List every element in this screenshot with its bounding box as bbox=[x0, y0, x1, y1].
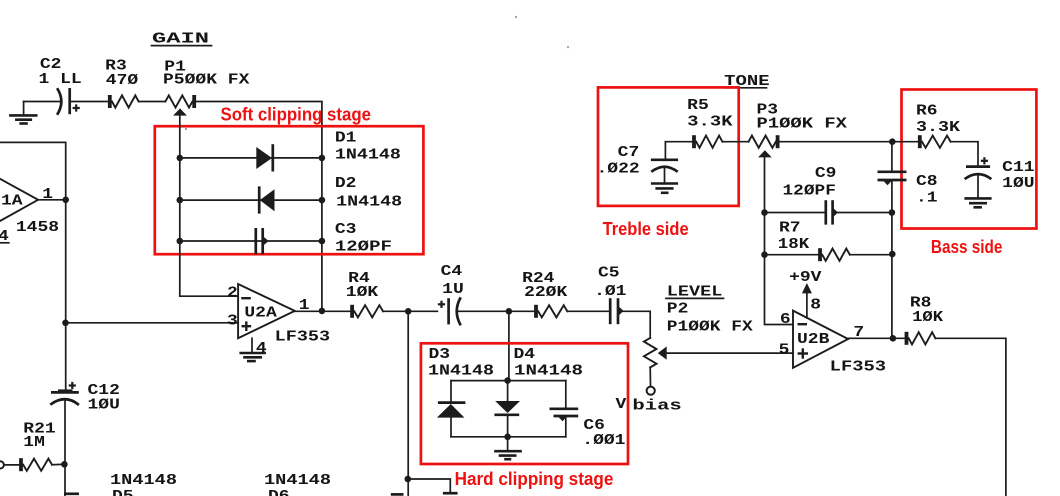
C4 plus sign bbox=[438, 301, 445, 308]
svg-text:1ØU: 1ØU bbox=[1002, 175, 1034, 192]
noise speck bbox=[185, 128, 187, 130]
capacitor C4 1U (electrolytic) bbox=[449, 297, 461, 325]
title TONE bbox=[724, 73, 769, 90]
junction bbox=[889, 209, 896, 216]
feedback wire from left edge bbox=[0, 142, 66, 199]
capacitor C3 120PF bbox=[256, 228, 269, 254]
svg-text:U2B: U2B bbox=[797, 331, 829, 348]
resistor R5 bbox=[694, 135, 722, 148]
wire bbox=[565, 416, 567, 437]
minus sign U2B bbox=[798, 323, 808, 325]
svg-text:1N4148: 1N4148 bbox=[336, 193, 402, 210]
wire down to hard-clip bbox=[508, 311, 510, 380]
svg-text:1A: 1A bbox=[1, 193, 23, 210]
svg-text:C3: C3 bbox=[335, 221, 357, 238]
svg-text:P5ØØK FX: P5ØØK FX bbox=[163, 72, 249, 89]
wire to soft-clip right rail bbox=[196, 102, 322, 312]
svg-text:V: V bbox=[616, 396, 627, 413]
junction bbox=[889, 138, 896, 145]
svg-text:R7: R7 bbox=[779, 220, 801, 237]
ground stem wire bbox=[507, 437, 509, 450]
svg-text:5: 5 bbox=[779, 341, 790, 358]
svg-text:Treble side: Treble side bbox=[603, 218, 689, 239]
plus sign U2B bbox=[798, 348, 808, 358]
wire bbox=[779, 141, 892, 143]
wire bbox=[450, 381, 452, 403]
capacitor C2 bbox=[57, 88, 70, 115]
svg-text:6: 6 bbox=[780, 311, 791, 328]
noise speck bbox=[567, 46, 569, 48]
junction bbox=[319, 155, 326, 162]
rail wire down bbox=[407, 311, 409, 496]
wire to C11 bbox=[951, 142, 978, 166]
wire bbox=[665, 141, 694, 143]
svg-text:4: 4 bbox=[256, 340, 267, 357]
ground C7 bbox=[651, 184, 678, 193]
svg-text:1U: 1U bbox=[442, 281, 464, 298]
svg-text:47Ø: 47Ø bbox=[106, 72, 138, 89]
svg-text:C4: C4 bbox=[441, 263, 463, 280]
wire bbox=[383, 310, 437, 312]
open terminal V bias bbox=[647, 387, 655, 395]
tone right rail wire upper bbox=[891, 142, 893, 171]
resistor R1? no: R3 bbox=[110, 95, 139, 108]
wire bbox=[722, 141, 748, 143]
junction bbox=[889, 251, 896, 258]
wire bbox=[24, 101, 60, 103]
resistor R7 bbox=[820, 248, 850, 261]
wire C9 row bbox=[765, 212, 825, 214]
junction bbox=[405, 476, 412, 483]
capacitor C9 120PF bbox=[826, 200, 838, 224]
resistor R24 bbox=[536, 305, 567, 318]
minus sign U2A bbox=[241, 297, 251, 299]
op-amp U2A LF353 bbox=[238, 284, 295, 338]
title GAIN bbox=[152, 30, 212, 47]
junction bbox=[761, 209, 768, 216]
svg-text:18K: 18K bbox=[778, 236, 809, 253]
resistor R4 bbox=[352, 305, 383, 318]
wire bbox=[567, 310, 609, 312]
diode D1 1N4148 bbox=[256, 144, 273, 171]
partial diode D5 mark bbox=[64, 492, 79, 495]
svg-text:C8: C8 bbox=[916, 173, 938, 190]
junction to U2A pin 3 bbox=[62, 320, 69, 327]
wire U1A output bbox=[38, 199, 66, 201]
diode D3 1N4148 (pointing up) bbox=[437, 403, 466, 418]
wire bbox=[977, 174, 979, 198]
left rail wire upper bbox=[65, 200, 67, 392]
svg-text:22ØK: 22ØK bbox=[524, 284, 567, 301]
junction node bbox=[405, 308, 412, 315]
svg-text:bias: bias bbox=[632, 398, 681, 415]
wire hard-clip bottom rail bbox=[451, 436, 566, 438]
red annotation box: treble side bbox=[598, 87, 739, 205]
noise speck bbox=[515, 16, 517, 18]
svg-text:.Ø22: .Ø22 bbox=[597, 161, 640, 178]
svg-text:C7: C7 bbox=[618, 144, 640, 161]
wire bbox=[834, 212, 892, 214]
wire P2 wiper to U2B pin 5 bbox=[667, 352, 793, 354]
wire bbox=[139, 101, 166, 103]
wire output to bottom edge bbox=[935, 338, 1006, 496]
partial component at bottom edge bbox=[443, 492, 458, 495]
svg-text:D4: D4 bbox=[514, 346, 536, 363]
svg-text:.ØØ1: .ØØ1 bbox=[582, 432, 625, 449]
tone right rail wire lower bbox=[891, 181, 893, 338]
svg-text:3: 3 bbox=[227, 312, 238, 329]
wire bbox=[52, 463, 64, 465]
wire D2 row bbox=[180, 199, 322, 201]
resistor R21 bbox=[21, 458, 52, 471]
op-amp U1A 1458 (clipped at left edge) bbox=[0, 165, 38, 236]
capacitor C11 10U (electrolytic) bbox=[965, 167, 992, 180]
junction bbox=[177, 238, 184, 245]
svg-text:1458: 1458 bbox=[16, 219, 59, 236]
resistor R8 bbox=[907, 332, 936, 345]
feedback junction bbox=[319, 308, 326, 315]
junction bbox=[319, 197, 326, 204]
ground stem wire bbox=[23, 102, 25, 115]
wire bbox=[664, 167, 666, 183]
svg-text:D1: D1 bbox=[335, 129, 357, 146]
svg-text:D6: D6 bbox=[268, 488, 290, 496]
junction bbox=[177, 155, 184, 162]
svg-text:12ØPF: 12ØPF bbox=[335, 238, 392, 255]
ground U2A bbox=[239, 353, 266, 361]
wire U2A pin 4 bbox=[251, 338, 253, 352]
wire D1 row bbox=[180, 157, 322, 159]
potentiometer P3 bbox=[749, 135, 778, 157]
junction bbox=[177, 197, 184, 204]
junction R21 bbox=[61, 461, 68, 468]
svg-text:.1: .1 bbox=[916, 189, 938, 206]
svg-text:3.3K: 3.3K bbox=[916, 119, 960, 136]
svg-text:12ØPF: 12ØPF bbox=[783, 182, 836, 199]
wire bbox=[565, 381, 567, 409]
svg-text:1M: 1M bbox=[23, 434, 45, 451]
svg-text:U2A: U2A bbox=[244, 305, 276, 322]
plus sign U2A bbox=[242, 321, 252, 331]
svg-text:Soft clipping stage: Soft clipping stage bbox=[221, 103, 372, 124]
wire hard-clip top rail bbox=[451, 380, 566, 382]
svg-text:+9V: +9V bbox=[789, 269, 821, 286]
svg-text:3.3K: 3.3K bbox=[687, 114, 732, 131]
ground hard-clip bbox=[494, 451, 522, 459]
+9V supply arrow bbox=[802, 283, 812, 318]
svg-text:1ØK: 1ØK bbox=[346, 284, 378, 301]
wire branch bbox=[408, 479, 451, 493]
wire bbox=[892, 141, 920, 143]
diode D4 1N4148 (pointing down) bbox=[494, 401, 520, 415]
ground C11 bbox=[964, 198, 991, 207]
wire bbox=[507, 415, 509, 437]
junction bbox=[761, 251, 768, 258]
svg-text:D5: D5 bbox=[112, 488, 134, 496]
wire bbox=[4, 464, 21, 466]
svg-text:LF353: LF353 bbox=[830, 358, 886, 375]
wire U2A output bbox=[295, 310, 352, 312]
op-amp U2B LF353 bbox=[793, 311, 848, 368]
wire to U2A pin 2 bbox=[180, 295, 238, 297]
svg-text:LF353: LF353 bbox=[275, 329, 330, 346]
wire to P2 bbox=[619, 311, 650, 338]
soft-clip left rail wire bbox=[179, 116, 181, 296]
title LEVEL bbox=[666, 283, 724, 300]
svg-text:P1ØØK FX: P1ØØK FX bbox=[667, 319, 753, 336]
junction node bbox=[506, 308, 513, 315]
node U1A output junction bbox=[62, 197, 69, 204]
svg-text:1ØK: 1ØK bbox=[912, 309, 943, 326]
svg-text:1N4148: 1N4148 bbox=[514, 363, 583, 380]
svg-text:Bass side: Bass side bbox=[931, 236, 1003, 257]
C11 plus sign bbox=[981, 157, 988, 164]
red annotation box: hard clipping stage bbox=[421, 343, 628, 464]
wire U2B output bbox=[848, 337, 906, 339]
svg-text:R5: R5 bbox=[687, 97, 709, 114]
junction bbox=[504, 377, 511, 384]
svg-text:1ØU: 1ØU bbox=[88, 396, 120, 413]
capacitor C12 10U (electrolytic) bbox=[50, 391, 79, 405]
ground bbox=[9, 115, 37, 123]
svg-text:R6: R6 bbox=[916, 103, 938, 120]
wire P3 wiper rail to U2B pin 6 bbox=[765, 157, 794, 324]
potentiometer P1 bbox=[165, 95, 194, 116]
potentiometer P2 (vertical) bbox=[644, 338, 667, 368]
pin 4 label with underline bbox=[0, 228, 9, 245]
wire bbox=[457, 310, 536, 312]
svg-text:C9: C9 bbox=[815, 165, 837, 182]
junction bbox=[504, 434, 511, 441]
resistor R6 bbox=[920, 135, 951, 148]
capacitor C6 .001 bbox=[550, 409, 579, 421]
diode D2 1N4148 bbox=[259, 186, 274, 213]
svg-text:1 LL: 1 LL bbox=[39, 71, 82, 88]
svg-text:D3: D3 bbox=[429, 346, 451, 363]
red annotation box: bass side bbox=[902, 90, 1037, 229]
svg-text:Hard clipping stage: Hard clipping stage bbox=[455, 468, 614, 489]
svg-text:.Ø1: .Ø1 bbox=[594, 283, 626, 300]
wire bbox=[850, 254, 892, 256]
svg-text:1N4148: 1N4148 bbox=[264, 472, 331, 489]
capacitor C7 .022 bbox=[651, 160, 678, 172]
left rail wire lower bbox=[64, 400, 66, 496]
svg-text:P1ØØK FX: P1ØØK FX bbox=[757, 116, 848, 133]
wire R7 row bbox=[765, 254, 821, 256]
red annotation box: soft clipping stage bbox=[155, 126, 424, 254]
wire bbox=[507, 381, 509, 401]
partial component at bottom edge bbox=[391, 493, 404, 496]
wire to U2A pin 3 bbox=[66, 322, 239, 324]
svg-text:1N4148: 1N4148 bbox=[428, 363, 494, 380]
svg-text:P2: P2 bbox=[667, 300, 689, 317]
wire bbox=[71, 101, 110, 103]
wire C3 row bbox=[180, 240, 322, 242]
C2 plus sign bbox=[73, 104, 80, 111]
wire C7 stem bbox=[664, 142, 666, 159]
junction bbox=[319, 238, 326, 245]
svg-text:8: 8 bbox=[810, 297, 821, 314]
svg-text:2: 2 bbox=[227, 285, 238, 302]
svg-text:C5: C5 bbox=[598, 264, 620, 281]
capacitor C5 .01 bbox=[610, 298, 623, 324]
junction bbox=[890, 335, 897, 342]
capacitor C8 .1 bbox=[878, 172, 907, 185]
C12 plus sign bbox=[69, 382, 76, 389]
wire bbox=[450, 418, 452, 437]
open terminal at left edge bbox=[0, 461, 4, 468]
svg-text:C11: C11 bbox=[1002, 159, 1034, 176]
svg-text:1N4148: 1N4148 bbox=[335, 146, 401, 163]
svg-text:D2: D2 bbox=[335, 175, 357, 192]
wire bbox=[649, 367, 651, 386]
svg-text:1N4148: 1N4148 bbox=[110, 472, 177, 489]
